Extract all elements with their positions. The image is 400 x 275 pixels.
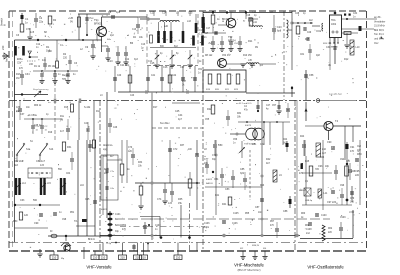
svg-text:210: 210 <box>120 256 125 260</box>
svg-text:4n: 4n <box>73 74 76 76</box>
svg-text:R34: R34 <box>138 162 143 164</box>
svg-text:9V: 9V <box>70 21 73 24</box>
svg-text:C65: C65 <box>85 198 90 201</box>
svg-text:C28: C28 <box>295 13 300 15</box>
svg-text:C93: C93 <box>318 165 323 168</box>
svg-text:C10: C10 <box>108 60 113 63</box>
svg-text:1n5: 1n5 <box>40 164 45 167</box>
svg-text:1062: 1062 <box>331 24 337 26</box>
svg-text:C61: C61 <box>300 54 305 56</box>
svg-text:C11 82p: C11 82p <box>120 64 130 67</box>
svg-text:R17: R17 <box>182 81 187 83</box>
svg-text:Mp: Mp <box>61 258 65 260</box>
svg-text:1n: 1n <box>59 211 62 214</box>
svg-text:an ZF-: an ZF- <box>374 16 382 19</box>
svg-text:C106: C106 <box>232 223 238 225</box>
svg-text:C14: C14 <box>162 12 167 15</box>
svg-text:C42: C42 <box>172 75 177 77</box>
svg-text:C52 4n7: C52 4n7 <box>222 55 231 57</box>
svg-text:C6: C6 <box>74 62 78 65</box>
svg-text:1p8: 1p8 <box>116 11 121 14</box>
svg-text:7k5: 7k5 <box>315 168 320 171</box>
svg-text:C21: C21 <box>252 11 257 14</box>
svg-text:68: 68 <box>44 31 47 34</box>
svg-text:C90: C90 <box>327 141 332 144</box>
svg-text:210: 210 <box>101 256 106 260</box>
svg-text:10k: 10k <box>139 37 144 39</box>
svg-text:Bild 38,9: Bild 38,9 <box>374 29 384 32</box>
svg-text:R6: R6 <box>130 42 134 45</box>
svg-text:C13: C13 <box>141 44 146 46</box>
svg-text:C101: C101 <box>115 214 121 216</box>
svg-text:R31: R31 <box>67 146 72 149</box>
svg-text:C43: C43 <box>130 95 135 97</box>
svg-text:C15: C15 <box>188 12 193 15</box>
svg-text:C13: C13 <box>132 29 137 31</box>
svg-text:1p: 1p <box>141 48 144 50</box>
svg-text:Bandfilter: Bandfilter <box>160 122 170 125</box>
svg-text:Dr: Dr <box>50 230 53 233</box>
svg-text:1k: 1k <box>199 61 202 63</box>
svg-text:6p8: 6p8 <box>277 30 282 33</box>
svg-text:R21: R21 <box>237 113 242 115</box>
svg-text:R15: R15 <box>64 107 69 109</box>
svg-text:10n: 10n <box>26 107 31 109</box>
svg-text:L11: L11 <box>324 192 328 195</box>
svg-text:3p3: 3p3 <box>134 59 139 61</box>
svg-text:R41: R41 <box>222 203 227 206</box>
svg-text:C108: C108 <box>306 229 312 231</box>
svg-text:C96: C96 <box>340 185 345 187</box>
svg-text:R21: R21 <box>225 89 230 91</box>
svg-text:S1: S1 <box>30 141 34 143</box>
svg-text:22p: 22p <box>39 21 44 24</box>
svg-text:R48: R48 <box>351 171 356 173</box>
svg-text:L16: L16 <box>80 185 85 187</box>
svg-text:C74: C74 <box>157 198 162 201</box>
svg-text:1n: 1n <box>353 17 356 19</box>
svg-text:BF324: BF324 <box>331 47 338 49</box>
svg-text:470: 470 <box>350 150 355 153</box>
svg-text:C97 220: C97 220 <box>327 201 337 204</box>
svg-text:(BM 2T MischOsz): (BM 2T MischOsz) <box>237 268 260 272</box>
svg-text:TDA: TDA <box>331 19 336 22</box>
svg-text:Ton 33,4: Ton 33,4 <box>374 33 384 36</box>
svg-text:R26 220: R26 220 <box>323 43 332 45</box>
svg-text:100: 100 <box>188 149 193 151</box>
svg-text:3p9: 3p9 <box>240 172 245 175</box>
svg-text:C77: C77 <box>204 158 209 161</box>
svg-text:C34: C34 <box>353 13 358 15</box>
svg-text:470: 470 <box>270 225 275 227</box>
svg-text:C83: C83 <box>225 188 230 191</box>
svg-text:220: 220 <box>63 57 68 60</box>
svg-text:L8: L8 <box>204 148 207 151</box>
svg-text:Kl2: Kl2 <box>240 248 244 250</box>
svg-text:R52: R52 <box>122 225 127 227</box>
svg-text:C51: C51 <box>198 69 203 71</box>
svg-text:120: 120 <box>24 214 29 217</box>
svg-text:C106: C106 <box>204 223 210 225</box>
svg-text:C4: C4 <box>244 106 248 108</box>
svg-text:Tr1: Tr1 <box>74 220 78 223</box>
svg-text:C56: C56 <box>233 139 238 141</box>
svg-text:1n: 1n <box>25 21 28 25</box>
svg-text:L43: L43 <box>187 21 192 23</box>
svg-text:R51: R51 <box>70 212 75 214</box>
svg-text:1k: 1k <box>182 85 185 87</box>
svg-text:L10: L10 <box>322 148 327 151</box>
svg-text:18p: 18p <box>325 165 330 168</box>
svg-text:1n: 1n <box>58 74 61 76</box>
svg-text:1n: 1n <box>233 143 236 145</box>
svg-text:1k: 1k <box>217 18 220 21</box>
svg-text:C81: C81 <box>252 143 257 146</box>
svg-text:R4x: R4x <box>107 39 112 41</box>
svg-text:R14: R14 <box>96 111 101 113</box>
svg-text:1k2: 1k2 <box>309 20 313 22</box>
svg-text:C16: C16 <box>199 30 204 32</box>
svg-text:C47: C47 <box>266 105 271 107</box>
svg-text:C17: C17 <box>180 66 185 69</box>
svg-text:1p5: 1p5 <box>346 161 351 163</box>
svg-text:S1b: S1b <box>49 148 54 151</box>
svg-text:1n: 1n <box>155 229 158 231</box>
svg-text:L10: L10 <box>356 46 361 49</box>
svg-text:C95: C95 <box>355 170 360 173</box>
svg-text:R8 1k2: R8 1k2 <box>205 55 213 57</box>
svg-text:VHF-Vorstufe: VHF-Vorstufe <box>86 265 112 270</box>
svg-text:VHF-Oszillatorstufe: VHF-Oszillatorstufe <box>307 265 344 270</box>
svg-text:C87: C87 <box>255 206 260 209</box>
svg-text:C72: C72 <box>173 148 178 151</box>
svg-text:L2: L2 <box>80 48 83 51</box>
svg-text:31,9 MHz: 31,9 MHz <box>374 25 385 28</box>
svg-text:R19: R19 <box>48 132 53 134</box>
svg-text:R9: R9 <box>255 47 259 49</box>
svg-text:33p: 33p <box>115 231 120 233</box>
svg-text:S-10k: S-10k <box>84 106 91 109</box>
svg-text:R10 150: R10 150 <box>243 55 252 57</box>
svg-text:R1x: R1x <box>60 116 65 118</box>
svg-text:120: 120 <box>128 151 133 153</box>
svg-text:1n: 1n <box>36 47 39 49</box>
svg-text:R32 2k2: R32 2k2 <box>14 160 24 163</box>
svg-text:R20: R20 <box>215 89 220 91</box>
svg-text:C12: C12 <box>36 44 41 46</box>
svg-text:1M: 1M <box>60 120 63 122</box>
svg-text:III: III <box>4 24 7 26</box>
svg-text:C64: C64 <box>66 173 71 175</box>
svg-text:an Kl 2 und Kl 5: an Kl 2 und Kl 5 <box>236 103 252 105</box>
svg-text:BF324: BF324 <box>222 18 230 21</box>
svg-text:R14: R14 <box>16 111 21 113</box>
svg-text:R60: R60 <box>301 213 306 215</box>
svg-text:C35 4n: C35 4n <box>34 125 42 127</box>
svg-text:18k: 18k <box>237 117 242 119</box>
svg-text:R4: R4 <box>133 37 137 39</box>
svg-text:R46: R46 <box>320 157 325 159</box>
svg-text:U 9V: U 9V <box>349 212 355 214</box>
svg-text:2n2: 2n2 <box>306 233 311 235</box>
svg-text:4k7: 4k7 <box>266 162 271 165</box>
svg-text:C9: C9 <box>85 46 89 49</box>
svg-text:C7x: C7x <box>110 171 115 173</box>
svg-text:1p: 1p <box>303 13 306 15</box>
svg-text:C36: C36 <box>16 107 21 109</box>
svg-text:Tr: Tr <box>243 20 245 23</box>
svg-text:C37: C37 <box>20 113 25 116</box>
svg-text:L60: L60 <box>29 63 34 66</box>
svg-text:L3: L3 <box>100 95 103 97</box>
svg-text:R12: R12 <box>344 58 349 61</box>
svg-text:C40: C40 <box>117 75 122 77</box>
svg-text:240: 240 <box>1 45 5 50</box>
svg-text:C88: C88 <box>283 210 288 213</box>
svg-text:und MHz: und MHz <box>374 38 385 41</box>
svg-text:560: 560 <box>33 199 38 202</box>
svg-text:C1: C1 <box>25 17 29 21</box>
svg-text:S1a: S1a <box>26 148 31 151</box>
svg-text:6p: 6p <box>176 53 179 55</box>
svg-text:47p: 47p <box>244 110 249 112</box>
svg-text:4p: 4p <box>160 53 163 55</box>
svg-text:C16: C16 <box>163 66 168 69</box>
svg-text:C46: C46 <box>113 127 118 129</box>
svg-text:R62: R62 <box>328 228 333 230</box>
svg-text:40673: 40673 <box>245 125 252 127</box>
svg-text:Verstärker: Verstärker <box>374 20 386 23</box>
svg-text:VHF-Mischstufe: VHF-Mischstufe <box>234 263 264 268</box>
svg-text:Kl4: Kl4 <box>263 248 267 250</box>
svg-text:R11: R11 <box>248 40 253 43</box>
svg-text:L45: L45 <box>248 60 253 62</box>
svg-text:C109: C109 <box>340 217 346 219</box>
svg-text:C70: C70 <box>128 147 133 149</box>
svg-text:C45: C45 <box>175 110 180 113</box>
svg-text:C55: C55 <box>205 119 210 121</box>
svg-text:R45: R45 <box>305 161 310 163</box>
svg-text:C17: C17 <box>206 28 211 30</box>
svg-text:C44: C44 <box>178 114 183 117</box>
svg-text:R44: R44 <box>283 139 288 141</box>
svg-text:R17: R17 <box>153 106 158 109</box>
svg-text:C98: C98 <box>62 219 67 221</box>
svg-text:C13: C13 <box>150 12 155 15</box>
svg-text:T4: T4 <box>335 119 339 123</box>
svg-text:C79: C79 <box>350 198 355 200</box>
svg-text:R5 10k: R5 10k <box>48 66 56 68</box>
svg-text:C61 4n7: C61 4n7 <box>36 160 46 163</box>
svg-text:C3: C3 <box>16 34 20 37</box>
svg-text:L14: L14 <box>22 183 27 185</box>
svg-text:R19: R19 <box>206 89 211 91</box>
svg-text:Osz: Osz <box>374 42 379 45</box>
svg-text:470: 470 <box>122 229 127 231</box>
svg-text:L5: L5 <box>176 12 179 15</box>
svg-text:R55: R55 <box>245 213 250 215</box>
svg-text:BA103: BA103 <box>206 182 213 185</box>
svg-text:C57: C57 <box>272 105 277 107</box>
svg-text:C17: C17 <box>204 33 209 35</box>
svg-text:Regelspannung: Regelspannung <box>33 89 49 91</box>
svg-text:C84: C84 <box>214 178 219 181</box>
svg-text:Osz: Osz <box>357 146 362 148</box>
svg-text:6,3V: 6,3V <box>255 245 260 247</box>
svg-text:1p: 1p <box>46 114 49 116</box>
svg-text:1k: 1k <box>127 168 130 171</box>
svg-text:C2: C2 <box>45 126 49 128</box>
svg-text:R41: R41 <box>215 195 220 197</box>
svg-text:C14: C14 <box>148 61 153 63</box>
svg-text:R1: R1 <box>46 45 50 49</box>
svg-text:L15: L15 <box>47 183 52 185</box>
svg-text:R1 1k: R1 1k <box>34 66 41 68</box>
svg-text:R57: R57 <box>270 221 275 223</box>
svg-text:ab C50a: ab C50a <box>28 115 37 117</box>
svg-text:220: 220 <box>328 232 333 234</box>
svg-text:1p: 1p <box>254 15 257 17</box>
svg-text:R44: R44 <box>300 136 305 138</box>
svg-text:1n5: 1n5 <box>168 202 173 205</box>
svg-text:4p7: 4p7 <box>178 118 183 121</box>
svg-text:C29: C29 <box>307 32 312 34</box>
svg-text:L9: L9 <box>279 174 282 177</box>
svg-text:4n5: 4n5 <box>42 60 47 62</box>
svg-text:2p2: 2p2 <box>110 35 115 37</box>
svg-text:2n: 2n <box>204 37 207 39</box>
svg-text:C100: C100 <box>321 215 327 217</box>
svg-text:C34: C34 <box>25 73 30 76</box>
svg-text:1M: 1M <box>16 77 19 80</box>
svg-text:C41: C41 <box>151 75 156 77</box>
svg-text:R37: R37 <box>180 145 185 147</box>
svg-text:C99: C99 <box>34 222 39 225</box>
svg-text:C79: C79 <box>212 155 217 157</box>
svg-text:4p: 4p <box>266 109 269 111</box>
svg-text:C51: C51 <box>234 43 239 45</box>
svg-text:C63: C63 <box>20 199 25 202</box>
svg-text:p60: p60 <box>48 51 53 53</box>
svg-text:BF900: BF900 <box>94 23 102 26</box>
svg-text:C91: C91 <box>350 146 355 149</box>
svg-text:560: 560 <box>58 169 63 171</box>
svg-text:15k: 15k <box>178 202 183 205</box>
svg-text:210: 210 <box>93 256 98 260</box>
svg-text:210: 210 <box>141 256 146 260</box>
svg-text:220: 220 <box>355 174 360 177</box>
svg-text:0p8: 0p8 <box>316 55 321 57</box>
svg-text:40822: 40822 <box>206 179 213 181</box>
svg-text:C103: C103 <box>155 225 161 227</box>
svg-text:C5b: C5b <box>17 63 22 65</box>
svg-text:1n: 1n <box>36 130 39 132</box>
svg-text:R42: R42 <box>266 158 271 161</box>
svg-text:C105: C105 <box>233 213 239 215</box>
svg-text:210: 210 <box>52 256 57 260</box>
svg-text:100n: 100n <box>204 227 210 229</box>
svg-text:R23: R23 <box>234 89 239 91</box>
svg-text:4k7: 4k7 <box>110 156 114 158</box>
svg-text:R60 1k: R60 1k <box>34 105 42 107</box>
svg-text:C85: C85 <box>240 168 245 171</box>
svg-text:470: 470 <box>19 68 24 70</box>
svg-text:C12: C12 <box>125 59 130 61</box>
svg-text:R24: R24 <box>288 30 293 32</box>
svg-text:Abstimm-: Abstimm- <box>103 144 113 147</box>
svg-text:4n7: 4n7 <box>60 130 65 133</box>
svg-text:C4x: C4x <box>110 188 115 190</box>
svg-text:4n7: 4n7 <box>322 152 327 155</box>
svg-text:R43: R43 <box>260 185 265 187</box>
svg-text:Q1: Q1 <box>305 181 309 183</box>
svg-text:210: 210 <box>176 256 181 260</box>
svg-text:R2: R2 <box>53 19 57 22</box>
svg-text:10k: 10k <box>138 166 143 168</box>
svg-text:spg.: spg. <box>62 78 67 81</box>
svg-text:L44: L44 <box>253 22 258 24</box>
svg-text:R35: R35 <box>178 198 183 201</box>
svg-text:C.L: C.L <box>60 44 64 47</box>
svg-text:C94: C94 <box>340 159 345 161</box>
svg-text:1n: 1n <box>198 73 201 75</box>
svg-text:BF241: BF241 <box>88 239 95 241</box>
svg-text:C18: C18 <box>246 15 251 17</box>
svg-text:R61: R61 <box>305 225 310 227</box>
svg-text:R13: R13 <box>16 73 21 76</box>
svg-text:R50: R50 <box>13 220 18 223</box>
svg-text:1n5: 1n5 <box>30 31 35 34</box>
svg-text:C58: C58 <box>309 74 314 77</box>
